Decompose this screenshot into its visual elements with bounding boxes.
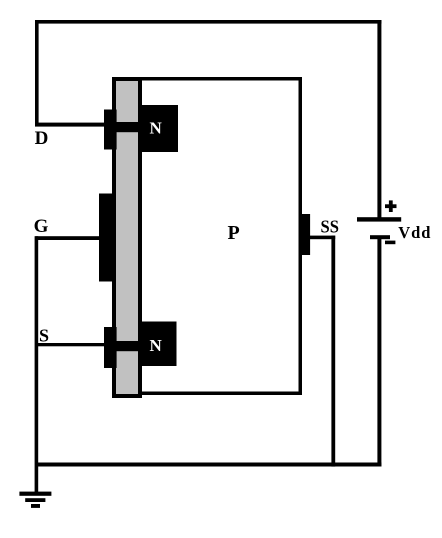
svg-text:N: N: [150, 118, 163, 137]
svg-text:G: G: [34, 216, 49, 237]
wire left vertical of D branch: [35, 20, 39, 127]
ground symbol: [19, 492, 51, 508]
drain N+ region: [138, 105, 178, 152]
wire SS vertical down to bottom wire: [331, 236, 335, 467]
battery Vdd negative plate: [370, 235, 390, 239]
battery - sign: [385, 241, 395, 245]
substrate contact SS pad: [301, 214, 310, 255]
wire left vertical (G/S branch to ground): [35, 236, 39, 492]
svg-text:N: N: [150, 336, 163, 355]
gate oxide bar (grey): [116, 81, 138, 394]
wire SS horizontal: [310, 236, 335, 240]
wire bottom (ground rail): [35, 463, 381, 467]
gate oxide bar border: [112, 77, 142, 398]
wire right vertical to battery +: [377, 20, 381, 218]
source N+ region: [138, 322, 177, 367]
battery + sign: [385, 200, 397, 212]
wire top (D branch to battery +): [35, 20, 382, 24]
svg-text:D: D: [35, 128, 49, 149]
source contact pad: [104, 327, 117, 368]
source contact finger: [104, 341, 176, 351]
drain contact finger: [104, 122, 178, 132]
battery Vdd positive plate: [357, 217, 401, 221]
gate contact pad: [99, 194, 114, 282]
svg-text:P: P: [228, 222, 240, 244]
wire right vertical from battery - to bottom wire: [377, 239, 381, 467]
svg-text:S: S: [39, 326, 49, 346]
drain contact pad: [104, 110, 117, 150]
substrate P region box: [114, 79, 301, 394]
svg-text:SS: SS: [321, 217, 339, 237]
svg-text:Vdd: Vdd: [398, 223, 431, 242]
wire G horizontal: [36, 236, 101, 240]
wire S horizontal: [35, 343, 105, 346]
wire D horizontal: [35, 123, 105, 127]
